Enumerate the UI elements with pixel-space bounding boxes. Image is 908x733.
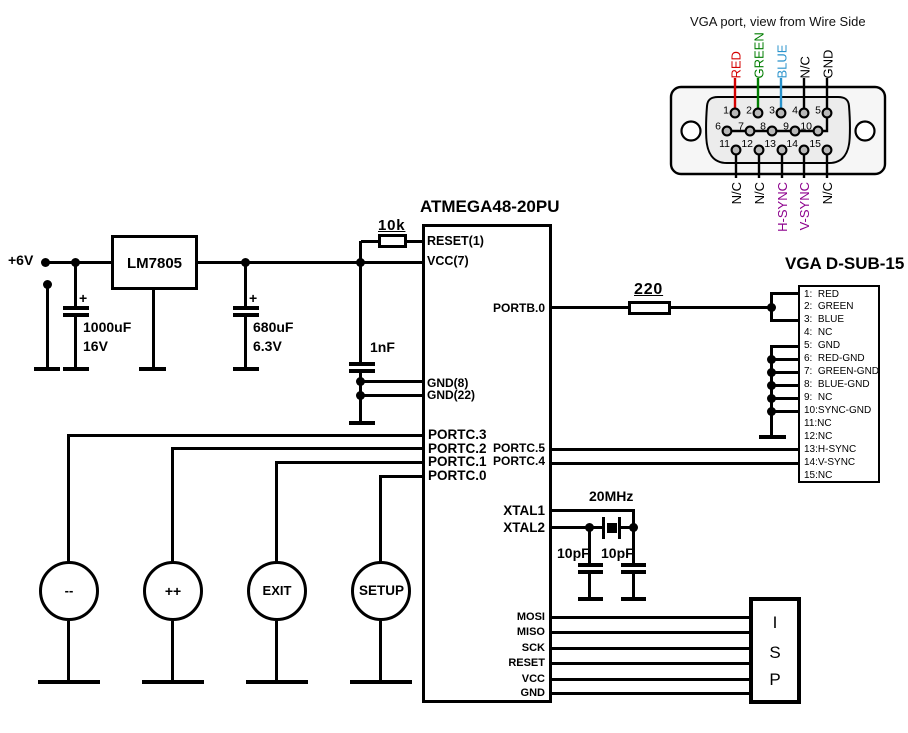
svg-text:6: 6 [715, 121, 721, 133]
wire PORTC.3 horizontal [67, 434, 422, 437]
svg-text:N/C: N/C [820, 182, 835, 204]
wire R2 to VGA pins 1-3 [671, 306, 773, 309]
svg-text:14: 14 [786, 138, 798, 150]
S3 label EXIT [247, 584, 307, 597]
regulator U2 LM7805 [111, 235, 198, 290]
pin 1 [731, 109, 740, 118]
resistor R1 10k [378, 234, 407, 248]
wire LM7805 out rail [198, 261, 422, 264]
svg-text:GND: GND [821, 50, 836, 79]
button S4 SETUP [351, 561, 411, 621]
svg-text:V-SYNC: V-SYNC [797, 182, 812, 230]
junction GND pin 8 [767, 381, 776, 390]
connector J2 VGA D-SUB-15 body [798, 285, 880, 483]
capacitor C4 10pF [578, 563, 603, 567]
wire MOSI [552, 616, 749, 619]
IC U1 body [422, 224, 552, 703]
svg-text:15: 15 [809, 138, 821, 150]
pin PORTC.1 [428, 455, 487, 469]
J2 title label VGA D-SUB-15 [785, 255, 904, 272]
pin 10 [814, 127, 823, 136]
ground [349, 421, 375, 425]
wire SCK [552, 647, 749, 650]
wire R1 to RESET(1) [407, 240, 422, 243]
wire PORTC.1 vertical to S3 [275, 461, 278, 562]
svg-text:1: 1 [723, 105, 729, 117]
wire stub to J2 pin 5 [770, 345, 798, 348]
C3 value label 1nF [370, 340, 395, 354]
wire GND(8) [361, 380, 422, 383]
svg-text:12: 12 [741, 138, 753, 150]
S4 label SETUP [351, 584, 412, 598]
wire ground terminal down [46, 284, 49, 368]
pin 8 [768, 127, 777, 136]
node +6V terminal dot [41, 258, 50, 267]
wire PORTC.3 vertical to S1 [67, 434, 70, 562]
pin PORTC.2 [428, 442, 487, 456]
pin 13 [778, 146, 787, 155]
junction GND pin 9 [767, 394, 776, 403]
svg-text:VGA port, view from Wire Side: VGA port, view from Wire Side [690, 14, 866, 29]
pin GND(22) [427, 389, 475, 401]
wire +6V to LM7805 [46, 261, 112, 264]
wire PORTC.1 horizontal [275, 461, 422, 464]
node RGB tie vertical [770, 292, 773, 321]
wire junction to C5 [632, 529, 635, 565]
wire PORTB.0 [552, 306, 628, 309]
wire C5 to ground [632, 574, 635, 599]
button S1 "--" [39, 561, 99, 621]
wire S3 to ground [275, 621, 278, 681]
wire N/C stub pin4 [803, 78, 805, 113]
wire PORTC.0 horizontal [379, 475, 422, 478]
junction GND22 [356, 391, 365, 400]
svg-text:3: 3 [769, 105, 775, 117]
connector J1 insert [706, 97, 850, 163]
svg-text:4: 4 [792, 105, 798, 117]
S2 label "++" [143, 584, 203, 598]
S1 label "--" [39, 584, 99, 597]
junction XTAL1/C5 [629, 523, 638, 532]
R2 value label 220 [634, 282, 663, 298]
pin XTAL1 [503, 504, 545, 518]
junction GND pin 10 [767, 407, 776, 416]
U2 name label LM7805 [111, 256, 198, 271]
pin VCC [522, 674, 545, 685]
mounting hole left [682, 122, 701, 141]
svg-text:GREEN: GREEN [752, 32, 767, 78]
junction GND pin 7 [767, 368, 776, 377]
wire XTAL2 [552, 526, 604, 529]
pin 6 [723, 127, 732, 136]
svg-text:13: 13 [764, 138, 776, 150]
wire PORTC.5 to H-SYNC [552, 448, 798, 451]
C5 value label 10pF [601, 546, 634, 560]
pin RESET(1) [427, 235, 484, 248]
ground [34, 367, 60, 371]
ground [233, 367, 259, 371]
wire stub to J2 pin 6 [770, 358, 798, 361]
wire C3 to ground [359, 373, 362, 421]
wire C2 to ground [244, 317, 247, 368]
ground terminal dot [43, 280, 52, 289]
wire S2 to ground [171, 621, 174, 681]
svg-text:5: 5 [815, 105, 821, 117]
wire rail to C2 [244, 261, 247, 306]
pin 5 [823, 109, 832, 118]
mounting hole right [856, 122, 875, 141]
wire XTAL1 horizontal [552, 509, 635, 512]
C1 value label 16V [83, 339, 108, 353]
svg-text:10: 10 [800, 121, 812, 133]
wire stub to J2 pin 10 [770, 410, 798, 413]
ground [621, 597, 646, 601]
wire GND(22) [361, 394, 422, 397]
C1 value label 1000uF [83, 320, 131, 334]
wire VCC [552, 678, 749, 681]
pin 2 [754, 109, 763, 118]
wire stub to J2 pin 1 [770, 292, 798, 295]
svg-text:H-SYNC: H-SYNC [775, 182, 790, 232]
wire RED stub [734, 78, 736, 113]
pin MISO [517, 627, 545, 638]
pin GND(8) [427, 377, 468, 389]
wire junction to C4 [588, 529, 591, 565]
svg-text:N/C: N/C [798, 56, 813, 78]
C2 value label 6.3V [253, 339, 282, 353]
ground [350, 680, 412, 684]
ground [759, 435, 786, 439]
wire to R1 left [361, 240, 378, 243]
pin PORTC.5 [493, 442, 545, 454]
wire RESET [552, 662, 749, 665]
junction C1 top [71, 258, 80, 267]
junction at R1/C3 [356, 258, 365, 267]
button S3 EXIT [247, 561, 307, 621]
junction XTAL2/C4 [585, 523, 594, 532]
pin 4 [800, 109, 809, 118]
pin RESET [508, 658, 545, 669]
pin VCC(7) [427, 255, 469, 268]
wire stub to J2 pin 7 [770, 371, 798, 374]
wire stubs pins 11-15 [735, 150, 737, 178]
pin GND [521, 688, 545, 699]
wire PORTC.4 to V-SYNC [552, 462, 798, 465]
wire MISO [552, 631, 749, 634]
wire stub to J2 pin 3 [770, 319, 798, 322]
pin 3 [777, 109, 786, 118]
Y1 value label 20MHz [589, 489, 633, 503]
pin 15 [823, 146, 832, 155]
wire stub to J2 pin 8 [770, 384, 798, 387]
J3 label P [749, 671, 801, 688]
pin 7 [746, 127, 755, 136]
J2 pin list labels 1-15 [804, 289, 879, 483]
C2 polarity mark + [249, 291, 257, 305]
svg-text:N/C: N/C [729, 182, 744, 204]
svg-text:RED: RED [729, 51, 744, 78]
resistor R2 220 [628, 301, 671, 315]
node GND tie vertical [770, 345, 773, 437]
wire GND net [727, 78, 827, 131]
C4 value label 10pF [557, 546, 590, 560]
svg-text:2: 2 [746, 105, 752, 117]
ground [38, 680, 100, 684]
J3 label S [749, 644, 801, 661]
wire PORTC.0 vertical to S4 [379, 475, 382, 562]
ground [246, 680, 308, 684]
ground [63, 367, 89, 371]
pin 9 [791, 127, 800, 136]
wire rail up to R1 [359, 241, 362, 261]
wire C1 to ground [74, 317, 77, 368]
wire S4 to ground [379, 621, 382, 681]
pin PORTC.0 [428, 469, 487, 483]
svg-text:7: 7 [738, 121, 744, 133]
pin MOSI [517, 612, 545, 623]
C1 polarity mark + [79, 291, 87, 305]
connector J1 shell [671, 87, 885, 174]
wire rail to C1 [74, 261, 77, 306]
junction C2 top [241, 258, 250, 267]
capacitor C5 10pF [621, 563, 646, 567]
ground [139, 367, 166, 371]
wire XTAL1 vertical [632, 509, 635, 528]
node +6V label [8, 253, 33, 267]
ground [578, 597, 603, 601]
wire stub to J2 pin 9 [770, 397, 798, 400]
button S2 "++" [143, 561, 203, 621]
junction GND pin 6 [767, 355, 776, 364]
R1 value label 10k [378, 218, 405, 233]
capacitor C2 680uF [233, 306, 259, 310]
pin XTAL2 [503, 521, 545, 535]
wire S1 to ground [67, 621, 70, 681]
pin PORTB.0 [493, 302, 545, 314]
svg-text:9: 9 [783, 121, 789, 133]
crystal Y1 20MHz [602, 517, 605, 539]
pin 12 [755, 146, 764, 155]
wire Y1 to junction [621, 526, 633, 529]
svg-text:11: 11 [719, 138, 730, 150]
connector J3 ISP body [749, 597, 801, 704]
pin PORTC.3 [428, 428, 487, 442]
wire GREEN stub [757, 78, 759, 113]
pin 11 [732, 146, 741, 155]
ground [142, 680, 204, 684]
C2 value label 680uF [253, 320, 293, 334]
capacitor C3 1nF [349, 362, 375, 366]
wire PORTC.2 horizontal [171, 447, 422, 450]
svg-text:BLUE: BLUE [775, 44, 790, 78]
wire LM7805 gnd pin [152, 290, 155, 368]
wire BLUE stub [780, 78, 782, 113]
junction GND8 [356, 377, 365, 386]
pin PORTC.4 [493, 455, 545, 467]
U1 name label ATMEGA48-20PU [420, 198, 560, 215]
capacitor C1 1000uF [63, 306, 89, 310]
svg-text:N/C: N/C [752, 182, 767, 204]
wire PORTC.2 vertical to S2 [171, 447, 174, 562]
pin SCK [522, 643, 545, 654]
wire C4 to ground [588, 574, 591, 599]
J3 label I [749, 614, 801, 631]
svg-text:8: 8 [760, 121, 766, 133]
wire rail down to C3 [359, 261, 362, 362]
junction RGB node [767, 303, 776, 312]
wire GND [552, 692, 749, 695]
pin 14 [800, 146, 809, 155]
